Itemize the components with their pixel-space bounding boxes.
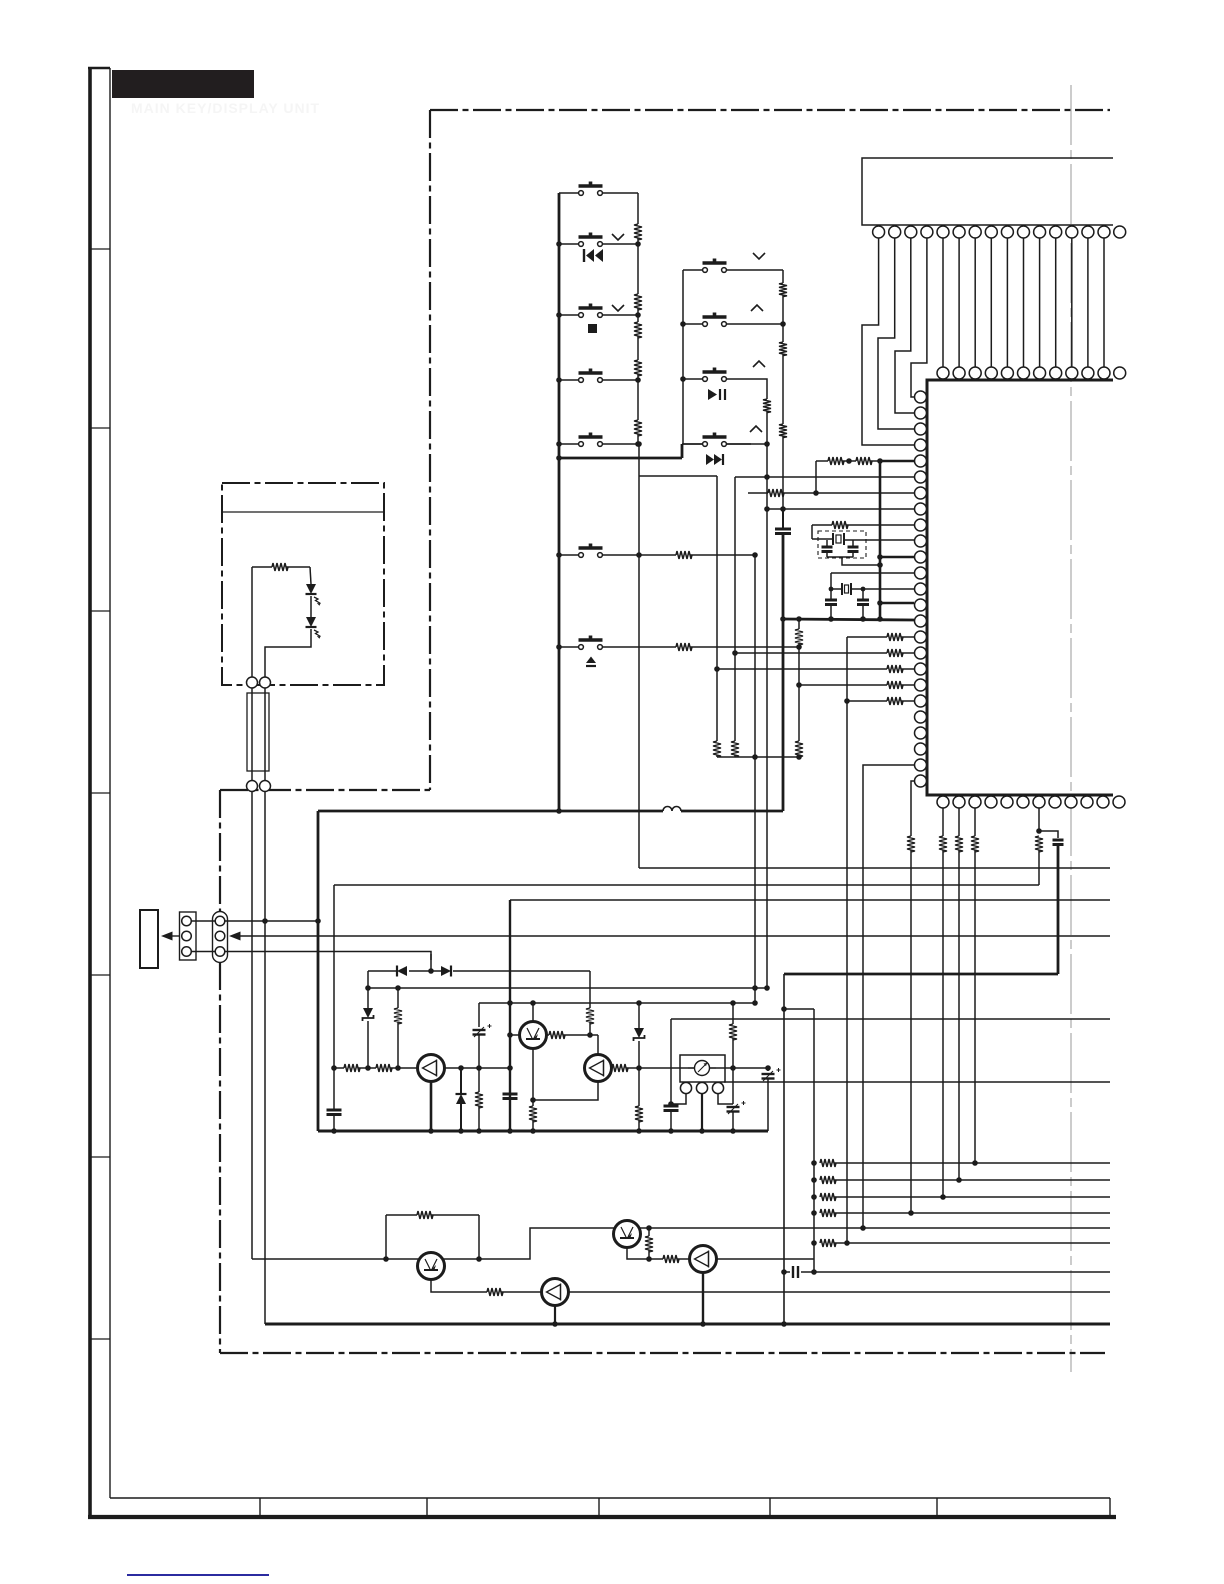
- wire Q4 emitter: [431, 1279, 487, 1293]
- footer table: cell divider x=1110: [1109, 1498, 1111, 1517]
- CN2 pin 2: [215, 931, 225, 941]
- wire key row y=444: [559, 443, 578, 445]
- CN3 pin 7 circle: [969, 226, 981, 238]
- wire pin14 (thick): [880, 602, 914, 605]
- junction C12/bus: [668, 1128, 674, 1134]
- connector CN2 housing (stadium): [213, 912, 228, 963]
- resistor R53: [971, 836, 979, 852]
- IC U1 left pin 11: [915, 551, 927, 563]
- wire R52 down: [958, 850, 960, 1180]
- wire CN3 pin5 to IC: [942, 238, 944, 367]
- resistor R16: [676, 551, 692, 559]
- junction column end x=943: [940, 1194, 946, 1200]
- wire IC bottom pin to R51: [942, 808, 944, 836]
- wire row270 right to rail783: [751, 269, 783, 271]
- symbol play/pause: [708, 389, 717, 400]
- wire R84 to Q7: [677, 1258, 690, 1260]
- IC U1 left pin 5: [915, 455, 927, 467]
- junction D1-D2 / sense wire: [428, 968, 434, 974]
- junction v639 row555: [636, 552, 642, 558]
- wire v735 column: [734, 477, 736, 741]
- wire signal row y=936 to right edge: [240, 935, 1110, 937]
- LED D101: [306, 584, 316, 594]
- transistor Q6: [614, 1221, 641, 1248]
- resistor R41 series: [816, 460, 828, 462]
- resistor R24: [763, 399, 771, 413]
- CN3 pin 1 circle: [873, 226, 885, 238]
- junction w1068b/v639b: [636, 1065, 642, 1071]
- wire v334: [333, 885, 335, 1068]
- junction v814 row 1243: [811, 1240, 817, 1246]
- wire row y=1213 to right edge: [834, 1212, 1110, 1214]
- wire CN3 pin13 to IC: [1071, 238, 1073, 367]
- junction loop right/base row: [476, 1256, 482, 1262]
- junction v814 row 1197: [811, 1194, 817, 1200]
- chevron (up) row2 right col: [751, 305, 763, 311]
- resistor R45 to IC pin: [847, 636, 887, 638]
- rail v733: [732, 1003, 734, 1024]
- resistor R81: [386, 1214, 417, 1216]
- symbol next >>|: [706, 454, 714, 465]
- tact switch SW1: [579, 191, 584, 196]
- key ladder rail x=638: [637, 193, 639, 224]
- wire v479 upper: [478, 1003, 480, 1027]
- page frame: outer thick left border: [88, 67, 92, 1519]
- wire CN3 pin10 to IC: [1023, 238, 1025, 367]
- wire IC bottom pin7 down: [1038, 808, 1040, 831]
- thick rail v880: [879, 461, 882, 619]
- junction rail-right: [635, 441, 641, 447]
- CN3 pin 3 circle: [905, 226, 917, 238]
- IC U1 left pin 3: [915, 423, 927, 435]
- CN1 pin 1: [182, 916, 192, 926]
- ground bus y=1131 (thick): [318, 1130, 768, 1133]
- rail v590: [589, 971, 591, 1008]
- wire to right edge y=900: [510, 899, 1110, 901]
- unit boundary (dash-dot): top edge: [430, 109, 1110, 111]
- symbol eject: [586, 657, 596, 664]
- wire v639 column: [638, 444, 640, 868]
- chevron (down) row1 right col: [753, 253, 765, 259]
- CN2 pin 1: [215, 916, 225, 926]
- junction v639b/w1003: [636, 1000, 642, 1006]
- junction v717/pin18 row: [714, 666, 720, 672]
- resistor R52: [955, 836, 963, 852]
- wire ribbon pin2 down to ground bus: [264, 792, 266, 1325]
- unit boundary (dash-dot): jog at y=790: [220, 789, 430, 791]
- wire R101 to connector pin: [251, 567, 253, 677]
- wire segment B to IC pin6: [735, 476, 914, 478]
- wire Q2-R61 row: [547, 1034, 550, 1036]
- motor M1 symbol: [695, 1061, 710, 1076]
- wire R42 to pin5 (thick): [870, 460, 880, 462]
- wire CN3 pin4 staircase to IC pin1: [911, 238, 927, 397]
- wire to right edge y=1228: [649, 1227, 1110, 1229]
- capacitor C1 (thick lead): [782, 509, 784, 529]
- wire to right edge y=1019: [671, 1018, 1110, 1020]
- junction R56/w1068: [395, 1065, 401, 1071]
- transistor Q1: [418, 1055, 445, 1082]
- wire key row y=324: [683, 323, 702, 325]
- wire CN3 pin3 staircase to IC pin2: [895, 238, 914, 413]
- wire LED cathode to connector pin: [265, 629, 311, 677]
- wire Q1 collector to bus: [430, 1082, 433, 1132]
- ribbon wire 1: [251, 688, 253, 780]
- resistor R51: [939, 836, 947, 852]
- wire Q6 emitter: [627, 1247, 663, 1260]
- footer table: cell divider x=770: [769, 1498, 771, 1517]
- zener D5: [634, 1028, 644, 1038]
- IC U1 bottom pin 10: [1081, 796, 1093, 808]
- connector P1 (board edge): [140, 910, 158, 968]
- LED sub-unit header rule: [222, 511, 384, 513]
- junction v847/pin20 row: [844, 698, 850, 704]
- wire CN3 pin11 to IC: [1039, 238, 1041, 367]
- junction v880 xtal return: [877, 562, 883, 568]
- IC U1 left pin 17: [915, 647, 927, 659]
- unit boundary (dash-dot): left edge lower: [219, 790, 221, 1353]
- junction v671/motor wire: [668, 1101, 674, 1107]
- junction v783/pin8 row (cap top): [780, 506, 786, 512]
- junction v799/pin19 row: [796, 682, 802, 688]
- junction rail-right: [635, 241, 641, 247]
- junction rail-right: [635, 312, 641, 318]
- motor terminal 1: [680, 1082, 691, 1093]
- CN3 pin 16 circle (cut at page edge): [1114, 226, 1126, 238]
- page fold mark (light gray vertical line): [1070, 85, 1072, 1372]
- tact switch SW10: [579, 553, 584, 558]
- IC U1 top pad 13: [1066, 367, 1078, 379]
- IC U1 bottom pin 9: [1065, 796, 1077, 808]
- wire motor terminal2 (thick): [701, 1094, 703, 1131]
- CN3 pin 15 circle: [1098, 226, 1110, 238]
- wire Q3 emitter row: [611, 1067, 614, 1069]
- wire Q5 to ground bus (thick): [554, 1305, 556, 1324]
- ground bus y=619 (thick) to pin15: [783, 619, 914, 620]
- junction v510/w1068: [507, 1065, 513, 1071]
- footer table: top rule: [110, 1497, 1110, 1499]
- tact switch SW11 (eject): [579, 645, 584, 650]
- junction column end x=911: [908, 1210, 914, 1216]
- wire signal row y=952: [225, 952, 431, 961]
- junction D4/bus: [458, 1128, 464, 1134]
- wire v755 column: [754, 555, 756, 1003]
- tact switch SW3 (stop): [579, 313, 584, 318]
- IC U1 bottom pin 12 (cut): [1113, 796, 1125, 808]
- key rail x=683: [682, 270, 684, 444]
- wire v717 column: [716, 476, 718, 741]
- wire key row y=270: [683, 269, 702, 271]
- IC U1 left pin 7: [915, 487, 927, 499]
- crystal X1: [812, 538, 833, 540]
- capacitor C8 (electrolytic): [473, 1029, 486, 1031]
- junction rail-left: [556, 312, 562, 318]
- symbol stop (square): [588, 324, 597, 333]
- IC U1 top pad 6: [953, 367, 965, 379]
- resistor R65: [729, 1024, 737, 1040]
- junction ribbon pin2 / wire 920: [262, 918, 268, 924]
- IC U1 bottom pin 8: [1049, 796, 1061, 808]
- resistor R72: [820, 1176, 836, 1184]
- ribbon cable between boards: [247, 693, 269, 771]
- CN3 pin 8 circle: [985, 226, 997, 238]
- wire pulldown bus y=757: [717, 756, 799, 758]
- wire CN1-CN2 row1: [191, 920, 215, 922]
- junction v880 pin11: [877, 554, 883, 560]
- junction v880 pin14: [877, 600, 883, 606]
- resistor R15 (ladder): [634, 420, 642, 436]
- junction rail-left: [556, 241, 562, 247]
- wire CN3 pin8 to IC: [990, 238, 992, 367]
- crystal X2: [831, 588, 842, 590]
- page frame: top corner cap: [88, 67, 110, 70]
- junction v863/w1228: [860, 1225, 866, 1231]
- IC U1 left pin 13: [915, 583, 927, 595]
- junction column end x=959: [956, 1177, 962, 1183]
- footer table: cell divider x=260: [259, 1498, 261, 1517]
- junction rail-right: [635, 377, 641, 383]
- symbol prev |<<: [583, 249, 585, 262]
- junction bus619/C4: [828, 616, 834, 622]
- junction C11/bus: [730, 1128, 736, 1134]
- junction R83/emitter row: [646, 1256, 652, 1262]
- IC U1 top pad 8: [985, 367, 997, 379]
- wire pin9 row with resistor R44: [812, 524, 832, 526]
- IC U1 top pad 12: [1050, 367, 1062, 379]
- tact switch SW2 (prev): [579, 242, 584, 247]
- junction row444/rail767: [764, 441, 770, 447]
- junction w988 left: [365, 985, 371, 991]
- wire branch to C6: [1039, 831, 1058, 838]
- signal arrow into P1: [161, 932, 173, 941]
- resistor R63: [612, 1064, 628, 1072]
- unit boundary (dash-dot): left edge upper: [429, 110, 431, 790]
- wire row324 right: [751, 323, 783, 325]
- branch to v814: [784, 1008, 814, 1010]
- zener D3: [367, 988, 369, 1008]
- rail v784: [783, 974, 785, 1324]
- CN2 pin 3: [215, 947, 225, 957]
- wire xtal caps return: [827, 556, 853, 558]
- wire key row y=555: [559, 554, 578, 556]
- wire row379 right to resistor: [751, 379, 767, 399]
- footer table: cell divider x=599: [598, 1498, 600, 1517]
- signal arrow into CN2: [229, 932, 241, 941]
- junction v799 row647: [796, 644, 802, 650]
- junction C7/ground bus: [331, 1128, 337, 1134]
- feedback loop left leg: [385, 1215, 387, 1259]
- resistor R60: [532, 1100, 534, 1106]
- wire pin24 row to v863: [863, 765, 914, 1227]
- IC U1 left pin 22: [915, 727, 927, 739]
- IC U1 left pin 9: [915, 519, 927, 531]
- IC U1 left pin 20: [915, 695, 927, 707]
- resistor R42 series: [842, 460, 856, 462]
- IC U1 top pad 7: [969, 367, 981, 379]
- IC U1 left pin 24: [915, 759, 927, 771]
- page frame: tick mark y=975: [90, 974, 110, 976]
- resistor R71: [820, 1159, 836, 1167]
- thick link y=974: [784, 973, 1058, 976]
- junction Q7/bus: [700, 1321, 706, 1327]
- junction v755 row555: [752, 552, 758, 558]
- page frame: tick mark y=793: [90, 792, 110, 794]
- page frame: tick mark y=249: [90, 248, 110, 250]
- junction R42/v880: [877, 458, 883, 464]
- wire diode row y=971: [368, 970, 397, 972]
- junction D3/w1068: [365, 1065, 371, 1071]
- key common rail (thick): [558, 193, 561, 811]
- wire to right edge y=1082: [724, 1081, 1110, 1083]
- wire row y=1243 to right edge: [834, 1242, 1110, 1244]
- transistor Q4: [418, 1253, 445, 1280]
- key rail x=783 upper: [782, 270, 784, 283]
- wire CN3 pin15 to IC: [1103, 238, 1105, 367]
- inductor L1: [663, 807, 681, 812]
- connector CN102 pin 1: [247, 781, 258, 792]
- IC U1 bottom pin 2: [953, 796, 965, 808]
- IC U1 bottom pin 7: [1033, 796, 1045, 808]
- resistor R54: [1035, 836, 1043, 852]
- resistor R32 (pull-down): [731, 741, 739, 757]
- wire row y=1163 to right edge: [834, 1162, 1110, 1164]
- resistor R58: [376, 1064, 392, 1072]
- junction v784/branch: [781, 1006, 787, 1012]
- footer table: cell divider x=427: [426, 1498, 428, 1517]
- CN1 pin 3: [182, 947, 192, 957]
- junction rail559/bus458: [556, 455, 562, 461]
- wire xtal loop: [811, 525, 813, 539]
- connector CN1 housing: [180, 912, 197, 960]
- junction v733/w1003: [730, 1000, 736, 1006]
- IC U1 left pin 18: [915, 663, 927, 675]
- CN3 pin 13 circle: [1066, 226, 1078, 238]
- junction X2 left: [829, 587, 834, 592]
- resistor R61: [549, 1031, 565, 1039]
- junction w1068/D4: [458, 1065, 464, 1071]
- wire base row y=1259: [252, 1258, 419, 1260]
- junction R60/bus: [530, 1128, 536, 1134]
- resistor R12 (ladder): [634, 294, 642, 310]
- junction rail559 row555: [556, 552, 562, 558]
- rail v671: [670, 1019, 672, 1104]
- junction wire921/thick rail: [315, 918, 321, 924]
- page frame: inner left border line: [109, 68, 111, 1498]
- wire to right edge y=1272: [814, 1271, 1110, 1273]
- tact switch SW8 (play): [703, 377, 708, 382]
- IC U1 top pad 10: [1018, 367, 1030, 379]
- junction R64/bus: [636, 1128, 642, 1134]
- wire corner left of D1: [367, 971, 369, 988]
- junction bus619/v799: [796, 616, 802, 622]
- junction v784/ground bus: [781, 1321, 787, 1327]
- junction Q6 collector/w1228: [646, 1225, 652, 1231]
- motor M1 box: [680, 1055, 725, 1082]
- resistor R73: [820, 1193, 836, 1201]
- wire to right edge y=868: [639, 867, 1110, 869]
- connector CN101 pin 2: [260, 677, 271, 688]
- wire Q2 emitter down: [533, 1049, 598, 1101]
- resistor R11 (ladder): [634, 224, 642, 240]
- wire motor terminal3: [718, 1094, 733, 1104]
- resistor R56: [397, 988, 399, 1008]
- resistor R23 (ladder): [779, 424, 787, 438]
- motor terminal 3: [712, 1082, 723, 1093]
- wire Q5 output to right edge: [568, 1291, 1110, 1293]
- junction v590/Q2 row: [587, 1032, 593, 1038]
- wire pin8 row: [767, 508, 914, 510]
- wire key row y=315: [559, 314, 578, 316]
- junction v814 row 1180: [811, 1177, 817, 1183]
- wire CN3 pin6 to IC: [958, 238, 960, 367]
- capacitor C5: [862, 589, 864, 599]
- footer table: bottom thick rule: [88, 1515, 1116, 1519]
- wire pin7 row with resistor R43: [748, 492, 768, 494]
- wire segment A y=476: [639, 475, 717, 477]
- rail v814: [813, 1009, 815, 1273]
- diode D1: [397, 966, 407, 976]
- junction v755/wire988: [752, 985, 758, 991]
- top connector CN3 housing (cut at page edge): [862, 158, 1113, 225]
- wire key row y=647 (eject): [559, 646, 578, 648]
- LED sub-unit boundary (dash-dot box): [222, 483, 384, 685]
- wire key row y=244: [559, 243, 578, 245]
- capacitor C9: [503, 1093, 518, 1096]
- wire pin13 row: [863, 588, 914, 590]
- IC U1 bottom pin 11: [1097, 796, 1109, 808]
- transistor Q5: [542, 1279, 569, 1306]
- svg-text:MAIN KEY/DISPLAY UNIT: MAIN KEY/DISPLAY UNIT: [131, 100, 320, 116]
- CN3 pin 11 circle: [1034, 226, 1046, 238]
- wire key row y=380: [559, 379, 578, 381]
- wire Q4 to Q6 link: [444, 1228, 615, 1259]
- CN1 pin 2: [182, 931, 192, 941]
- IC U1 left pin 2: [915, 407, 927, 419]
- junction v880 bus619: [877, 616, 883, 622]
- diode D4: [460, 1068, 462, 1094]
- footer table: cell divider x=937: [936, 1498, 938, 1517]
- hyperlink underline (blue) at page bottom: [127, 1574, 269, 1576]
- junction X2 right: [861, 587, 866, 592]
- IC U1 left pin 4: [915, 439, 927, 451]
- capacitor C10 (polarized): [767, 1068, 769, 1071]
- wire key row y=193: [559, 192, 578, 194]
- wire CN3 pin9 to IC: [1006, 238, 1008, 367]
- connector CN101 pin 1: [247, 677, 258, 688]
- CN3 pin 9 circle: [1001, 226, 1013, 238]
- IC U1 left pin 25: [915, 775, 927, 787]
- wire Q2 base: [510, 1034, 520, 1036]
- junction motor/bus: [699, 1128, 705, 1134]
- junction rail-left: [556, 377, 562, 383]
- wire pin25 row to v911: [911, 781, 914, 836]
- junction v735/pin17 row: [732, 650, 738, 656]
- junction Q1/bus: [428, 1128, 434, 1134]
- resistor R59: [478, 1068, 480, 1092]
- title block: solid black bar: [112, 70, 254, 98]
- junction v334/w1068: [331, 1065, 337, 1071]
- wire y=988: [368, 987, 767, 989]
- wire pin12 row: [831, 572, 914, 574]
- wire CN3 pin7 to IC: [974, 238, 976, 367]
- IC U1 left pin 19: [915, 679, 927, 691]
- junction Q2 base/v510: [507, 1032, 513, 1038]
- ground return bus y=1324 (thick): [265, 1323, 1110, 1326]
- junction v816/pin7 row: [813, 490, 819, 496]
- wire CN1-CN2 row3: [191, 951, 215, 953]
- wire X2 left lead: [830, 573, 832, 589]
- wire C6 down (thick): [1057, 846, 1060, 974]
